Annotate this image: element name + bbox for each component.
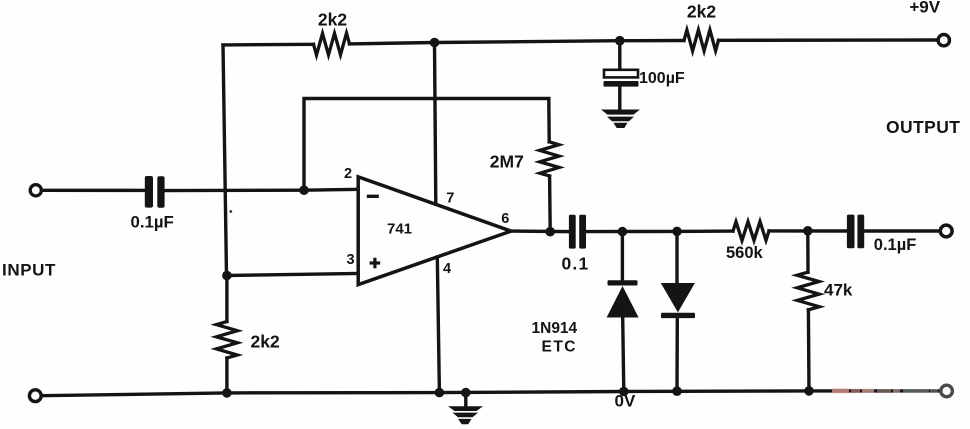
wire pin 3 from bias junction [227, 274, 358, 276]
svg-text:741: 741 [387, 220, 412, 237]
op-amp minus sign (inverting input) [367, 195, 379, 198]
node ground stub junction [461, 388, 471, 398]
svg-text:4: 4 [443, 261, 451, 277]
resistor 560k [733, 222, 769, 241]
svg-text:3: 3 [347, 252, 355, 268]
svg-text:6: 6 [501, 211, 509, 227]
wire top rail left segment (bias node to R 2k2) [223, 43, 314, 47]
wire 2M7 bottom to output node [548, 176, 552, 232]
wire pin 4 to 0V rail [437, 257, 439, 393]
svg-text:2: 2 [344, 166, 352, 182]
op-amp 741 triangle [358, 177, 511, 285]
ground (main 0V rail chassis) [448, 393, 483, 425]
terminal input ground (bottom left) [29, 390, 41, 402]
watermark remnant on rail [832, 389, 938, 394]
wire output cap to OUTPUT terminal [864, 229, 940, 232]
node pin7 rail junction [430, 38, 440, 48]
wire bias junction down to 2k2 [225, 276, 228, 322]
wire left vertical (top rail corner down to bias junction) [223, 45, 227, 276]
terminal +9V [938, 35, 949, 46]
ground (100uF decoupling) [601, 110, 640, 129]
op-amp plus sign (non-inverting input) [370, 258, 381, 269]
capacitor 0.1uF output [847, 215, 864, 249]
capacitor 0.1uF input coupling [145, 176, 165, 208]
svg-text:1N914: 1N914 [532, 320, 578, 337]
resistor 2k2 (bottom left, bias to 0V) [216, 322, 237, 358]
node D2 bottom junction [672, 386, 682, 396]
svg-text:47k: 47k [824, 280, 853, 299]
node 47k top junction [803, 226, 813, 236]
terminal output ground (bottom right) [941, 385, 953, 397]
svg-text:OUTPUT: OUTPUT [886, 117, 960, 137]
node diode D1 top junction [618, 227, 628, 237]
resistor 2k2 (top left, supply to bias divider) [314, 33, 350, 55]
node bias junction (pin3 tap) [222, 271, 232, 281]
svg-text:ETC: ETC [542, 339, 578, 356]
svg-text:2k2: 2k2 [251, 331, 280, 351]
node 2M7/pin6 junction [545, 227, 555, 237]
wire top rail right segment to +9V terminal [719, 38, 939, 42]
wire input terminal to coupling capacitor [41, 189, 145, 192]
svg-text:INPUT: INPUT [2, 260, 56, 279]
svg-text:2M7: 2M7 [490, 152, 524, 172]
svg-text:7: 7 [446, 190, 454, 206]
wire capacitor to op-amp pin 2 (crosses bias line, no join) [165, 189, 359, 190]
wire 0V bottom rail [42, 391, 941, 396]
wire cap to diode junctions [586, 229, 733, 233]
node 2k2 to 0V rail junction [222, 388, 232, 398]
wire top rail middle segment [350, 41, 685, 44]
wire 560k to output cap [769, 229, 847, 233]
terminal INPUT [30, 185, 41, 196]
svg-text:560k: 560k [726, 244, 764, 262]
stray ink speck [229, 210, 232, 213]
wire feedback riser (pin2 node up and across, crosses pin7 line) [304, 99, 549, 191]
resistor 2M7 feedback [540, 142, 560, 176]
diode D2 1N914 (cathode down) [661, 231, 695, 391]
wire pin 6 output to coupling cap [511, 229, 569, 233]
svg-text:2k2: 2k2 [687, 1, 716, 21]
svg-text:0.1µF: 0.1µF [131, 212, 174, 231]
terminal OUTPUT [940, 225, 952, 237]
wire 2k2 bottom to 0V rail [225, 358, 228, 393]
node D1 bottom junction [619, 387, 629, 397]
node pin4 rail junction [435, 388, 445, 398]
svg-text:+9V: +9V [909, 0, 940, 17]
svg-text:0.1µF: 0.1µF [874, 236, 917, 254]
svg-text:100µF: 100µF [639, 70, 685, 87]
resistor 47k [797, 231, 819, 391]
node 100uF rail junction [615, 36, 625, 46]
node diode D2 top junction [672, 227, 682, 237]
resistor 2k2 (top right, +9V to pin 7 supply) [684, 30, 719, 51]
node inverting input junction [299, 185, 309, 195]
wire pin 7 to supply rail [435, 43, 436, 205]
svg-text:0V: 0V [615, 392, 636, 411]
capacitor 0.1 output coupling [569, 215, 586, 249]
svg-text:0.1: 0.1 [562, 254, 590, 274]
capacitor 100uF electrolytic [604, 41, 639, 110]
svg-text:2k2: 2k2 [318, 9, 347, 29]
diode D1 1N914 (cathode up) [607, 232, 639, 392]
node 47k bottom junction [804, 386, 814, 396]
